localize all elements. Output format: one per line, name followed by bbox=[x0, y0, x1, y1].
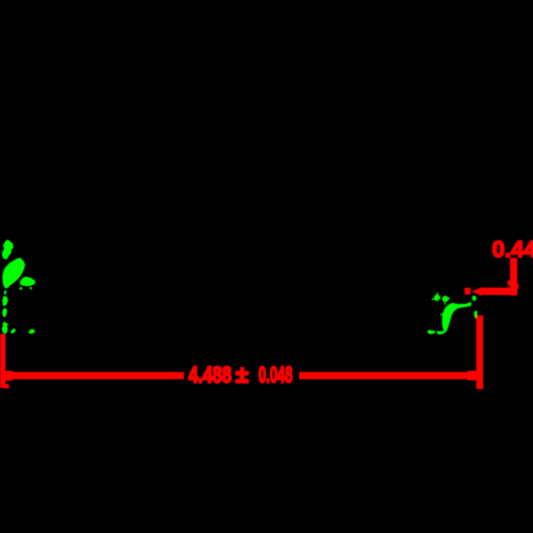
svg-text:0.048: 0.048 bbox=[259, 362, 293, 388]
right bush swoosh J bbox=[442, 302, 472, 332]
svg-text:4.488: 4.488 bbox=[189, 362, 232, 388]
leader vertical bar bbox=[510, 258, 517, 296]
leader bar right nib bbox=[517, 284, 519, 289]
left arrow bump bbox=[5, 371, 14, 381]
left extension tick bbox=[0, 334, 6, 388]
leader dash bbox=[465, 288, 471, 295]
right arrow bump bbox=[468, 371, 477, 381]
svg-text:±: ± bbox=[236, 362, 249, 388]
dimension line right segment bbox=[299, 372, 479, 379]
right grass tuft H arms bbox=[432, 293, 438, 300]
right grass tuft I stem bbox=[444, 303, 446, 305]
right extension tick bbox=[476, 316, 483, 390]
left tree small dots bbox=[19, 287, 22, 290]
right bush swoosh J left spike bbox=[440, 313, 443, 315]
right grass tuft H bbox=[434, 294, 441, 301]
leader horizontal bar bbox=[482, 288, 517, 295]
leader arrowhead bbox=[472, 287, 483, 296]
svg-text:0.448: 0.448 bbox=[492, 236, 533, 262]
left tick foot step bbox=[4, 384, 9, 388]
left tree canopy blob C bbox=[20, 277, 36, 287]
left tree trunk tufts D bbox=[2, 296, 8, 317]
left tree canopy blob A bbox=[2, 240, 13, 260]
leader bar left nib bbox=[508, 280, 511, 285]
right sprig M bbox=[474, 310, 478, 319]
right grass tuft I bbox=[442, 296, 450, 303]
left tree canopy blob B bbox=[2, 258, 25, 295]
left ground tuft G bbox=[29, 329, 36, 334]
left ground tuft F bbox=[11, 328, 16, 333]
right bush tail tuft bbox=[437, 331, 445, 335]
left ground tuft E bbox=[2, 322, 9, 334]
right ground tuft K bbox=[427, 330, 435, 334]
dimension line left segment bbox=[0, 372, 184, 379]
right small sprig L bbox=[472, 295, 476, 301]
